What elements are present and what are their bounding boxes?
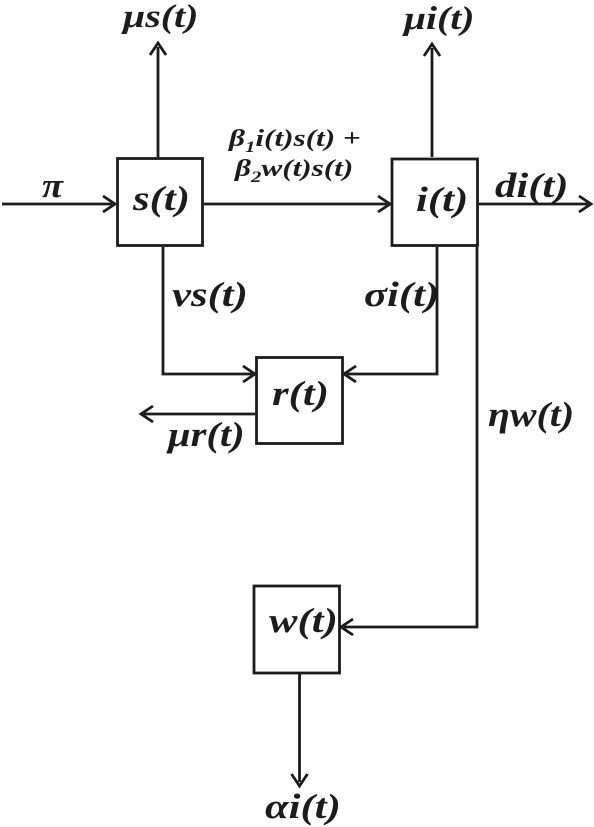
wire pi input arrow [2, 196, 115, 212]
box w(t) [254, 586, 340, 673]
label beta2 w(t)s(t) [235, 157, 353, 186]
label nu-s(t) [172, 277, 248, 312]
label beta1 i(t)s(t) + [229, 127, 361, 156]
label mu-i(t) [404, 3, 474, 36]
label sigma-i(t) [364, 277, 439, 312]
box s(t) [118, 159, 203, 246]
wire mu-i(t) output arrow up from i(t) [424, 44, 440, 157]
label s(t) in box [133, 181, 190, 216]
wire mu-r(t) output arrow left from r(t) [141, 406, 255, 422]
label alpha-i(t) [265, 789, 341, 824]
box i(t) [392, 159, 478, 246]
wire alpha-i(t) output arrow down from w(t) [292, 674, 308, 786]
wire sigma-i(t) flow i(t) to r(t) [344, 247, 437, 382]
wire di(t) output arrow right from i(t) [479, 196, 591, 212]
box r(t) [257, 358, 343, 444]
wire infection flow s(t) to i(t) [204, 196, 390, 212]
wire nu-s(t) flow s(t) to r(t) [163, 247, 255, 382]
label pi [42, 168, 63, 203]
label r(t) in box [272, 376, 329, 411]
label di(t) [495, 168, 569, 203]
wire eta-w(t) flow i(t) to w(t) [341, 247, 477, 635]
label mu-r(t) [168, 417, 245, 452]
label w(t) in box [269, 603, 338, 638]
label eta-w(t) [488, 397, 574, 432]
wire mu-s(t) output arrow up from s(t) [150, 43, 166, 157]
label i(t) in box [416, 182, 468, 217]
label mu-s(t) [123, 1, 198, 34]
